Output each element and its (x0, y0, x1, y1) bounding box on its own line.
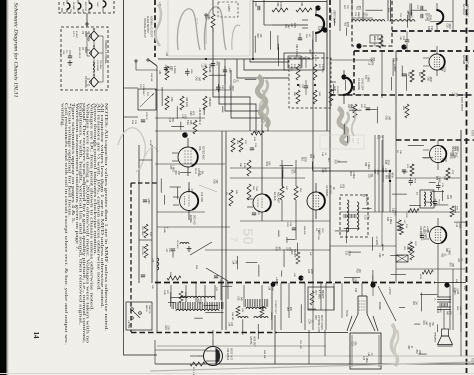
svg-text:R28 36K: R28 36K (208, 97, 211, 107)
clutter zone left mid (177, 187, 179, 199)
wire top center y1 (253, 1, 327, 3)
wire v x282 (281, 160, 283, 186)
resistor cluster A (231, 138, 235, 152)
resistor R86 (190, 362, 205, 366)
svg-text:R63: R63 (384, 175, 386, 180)
node a (205, 58, 207, 60)
wire h y171 (313, 170, 390, 172)
wire v x396 (395, 51, 397, 140)
resistor R30 1 MEG (165, 66, 169, 80)
resistor R61 vert lin (379, 36, 383, 48)
svg-text:TENT: TENT (471, 358, 474, 365)
svg-text:10K: 10K (259, 33, 261, 38)
svg-text:C18: C18 (317, 26, 319, 31)
svg-text:R34: R34 (265, 161, 267, 166)
noise box small (370, 35, 382, 43)
dashed boundary lower left (131, 182, 157, 184)
svg-text:C48 180: C48 180 (231, 312, 233, 321)
svg-text:L37: L37 (151, 258, 154, 263)
page bottom shade (150, 362, 474, 371)
wire rail x123 (123, 0, 125, 332)
svg-text:10K: 10K (354, 278, 356, 283)
svg-text:2200: 2200 (293, 23, 295, 29)
svg-text:47K: 47K (370, 61, 372, 66)
svg-text:R75: R75 (435, 176, 437, 181)
svg-text:winding.: winding. (60, 103, 64, 127)
clutter zone mid top extra (245, 78, 257, 80)
svg-text:68K: 68K (289, 307, 291, 312)
dashed box +135V (218, 2, 238, 17)
svg-text:KEYED AGC: KEYED AGC (202, 146, 205, 160)
if can box L5 (284, 53, 324, 70)
svg-text:R26: R26 (208, 68, 211, 73)
svg-text:+250: +250 (147, 198, 150, 204)
hv diagonal lead (378, 286, 396, 321)
svg-text:C55: C55 (237, 296, 239, 301)
svg-text:10K: 10K (358, 269, 360, 274)
tube V7A agc amp (253, 194, 271, 212)
ghost waveform box (320, 135, 364, 149)
height box dashed (352, 0, 392, 46)
resistor R44 (353, 104, 357, 118)
waveform marker 10 (298, 275, 303, 280)
svg-text:47K: 47K (358, 6, 360, 11)
T8 core hatch (243, 299, 245, 307)
svg-text:.047: .047 (387, 116, 389, 121)
ground L19 (188, 246, 190, 249)
svg-text:.005: .005 (312, 154, 314, 159)
svg-text:470K: 470K (405, 213, 407, 219)
cap C30 180 (366, 107, 370, 109)
resistor R42 (313, 90, 317, 104)
right dashed boundary (466, 0, 468, 375)
wire h y246r (330, 245, 396, 247)
svg-text:C42: C42 (385, 116, 387, 121)
svg-text:C18: C18 (381, 168, 383, 173)
bus wire 6 (244, 59, 289, 70)
tube V5A vert osc (436, 10, 443, 24)
wire v x461 (460, 130, 462, 332)
tube V4A keyed agc (178, 147, 198, 167)
svg-text:3.9K: 3.9K (190, 188, 192, 193)
svg-text:PIX IF: PIX IF (194, 168, 196, 175)
waveform marker 9 (341, 74, 346, 79)
left col stubs (124, 87, 139, 89)
svg-text:Coil resistances read with coi: Coil resistances read with coil in circu… (64, 103, 68, 345)
svg-text:5%: 5% (225, 192, 227, 195)
svg-text:220K: 220K (231, 85, 233, 91)
svg-text:LTD: LTD (139, 84, 141, 88)
svg-text:C19 1000: C19 1000 (200, 192, 202, 203)
svg-text:SWITCH: SWITCH (148, 305, 150, 314)
vert panel dashed top (392, 30, 474, 32)
svg-text:2200: 2200 (286, 222, 288, 228)
clutter zone pre bus (281, 271, 283, 277)
svg-text:.047: .047 (425, 321, 427, 326)
svg-text:R34: R34 (453, 146, 455, 151)
if panel wires (86, 33, 88, 56)
svg-text:VIDEO I F PANEL: VIDEO I F PANEL (104, 40, 108, 64)
wire v x396 lower (395, 140, 397, 283)
resistor R54 1 MEG (296, 8, 312, 12)
svg-text:L35: L35 (158, 70, 161, 75)
svg-text:C18: C18 (198, 171, 200, 176)
wire h y227 (157, 226, 230, 228)
svg-text:1 MEG: 1 MEG (351, 105, 353, 112)
audio transformer T5 (437, 296, 451, 298)
wire h y118 (155, 117, 205, 119)
svg-text:220K: 220K (428, 15, 430, 21)
resistor R46 (405, 104, 409, 118)
svg-text:R49 47K: R49 47K (303, 226, 305, 235)
diag faint (199, 185, 217, 192)
tuner tube V101 rf amp (67, 3, 70, 9)
svg-text:NORMAL–CUTOFF: NORMAL–CUTOFF (150, 16, 153, 38)
svg-text:68K: 68K (448, 311, 450, 316)
clutter zone below bus (205, 312, 223, 314)
svg-text:R34: R34 (428, 322, 430, 327)
wire h y90 (155, 89, 230, 91)
resistor on wire y133 (251, 131, 264, 135)
resistor R82 (167, 276, 181, 280)
wire h y25 (272, 24, 308, 26)
svg-text:5%: 5% (395, 58, 397, 61)
svg-text:R16A: R16A (163, 227, 166, 233)
triple verticals (374, 135, 376, 212)
svg-text:.047: .047 (197, 76, 199, 81)
wire h y168 (230, 167, 330, 169)
svg-text:R75: R75 (349, 105, 351, 110)
svg-text:1 MEG: 1 MEG (389, 217, 391, 224)
svg-text:5%: 5% (366, 215, 368, 218)
svg-text:3.9K: 3.9K (270, 286, 272, 291)
svg-text:R88 10K: R88 10K (263, 350, 265, 359)
svg-text:C29: C29 (254, 2, 257, 7)
svg-text:1 MEG: 1 MEG (367, 75, 369, 82)
svg-text:R12 8.2K: R12 8.2K (141, 246, 143, 256)
left res cluster (144, 224, 148, 238)
svg-text:3RD VID: 3RD VID (193, 215, 196, 225)
svg-text:1 MEG: 1 MEG (173, 66, 176, 74)
ghost curves left (118, 128, 145, 172)
svg-text:470K: 470K (279, 2, 282, 8)
svg-text:64K: 64K (204, 15, 207, 20)
switch S2 (135, 60, 137, 62)
tuner tube V103 osc (89, 3, 92, 9)
svg-text:68K: 68K (354, 342, 356, 347)
svg-text:VR8: VR8 (314, 315, 316, 320)
svg-text:1 MEG: 1 MEG (352, 172, 354, 179)
svg-text:TEST POINT: TEST POINT (460, 97, 463, 112)
node box2 (314, 84, 316, 86)
svg-text:TEL-BLK: TEL-BLK (99, 60, 101, 69)
svg-text:2ND VID IF: 2ND VID IF (78, 47, 80, 59)
svg-text:R10 390K: R10 390K (141, 226, 143, 236)
svg-text:R63: R63 (309, 154, 311, 159)
svg-text:9A-49815-5: 9A-49815-5 (365, 194, 368, 206)
svg-text:.047: .047 (287, 24, 289, 29)
svg-text:R47: R47 (446, 311, 448, 316)
svg-text:R51 2.2 MEG: R51 2.2 MEG (295, 44, 298, 59)
svg-text:R47: R47 (440, 67, 442, 72)
svg-text:1 MEG: 1 MEG (394, 208, 396, 215)
tube V8B snd disc (430, 146, 447, 163)
wire h y221 (240, 220, 330, 222)
volume R80 (410, 246, 414, 260)
hv dashed box (340, 195, 368, 237)
svg-text:45.75: 45.75 (195, 18, 199, 25)
clutter zone mid low (372, 270, 374, 287)
tuner panel dashed box (59, 0, 114, 13)
svg-text:R52: R52 (343, 22, 345, 27)
svg-text:+4 140V: +4 140V (375, 236, 378, 245)
bottom rail y356 (225, 355, 474, 357)
clutter zone right top (334, 19, 336, 26)
svg-text:R47: R47 (196, 298, 198, 303)
b+ dashed bus (155, 282, 435, 284)
svg-text:470K: 470K (199, 298, 201, 304)
svg-text:C24: C24 (308, 319, 310, 324)
svg-text:5%: 5% (452, 155, 454, 158)
svg-text:C42: C42 (194, 76, 196, 81)
svg-text:2200: 2200 (310, 269, 312, 275)
svg-text:C24: C24 (228, 85, 230, 90)
wire h y350 (155, 349, 205, 351)
svg-text:1/2 6U8: 1/2 6U8 (462, 55, 466, 65)
svg-text:220K: 220K (458, 223, 460, 229)
svg-text:+250V: +250V (171, 250, 175, 258)
svg-text:R63: R63 (349, 172, 351, 177)
svg-text:R47: R47 (407, 345, 409, 350)
svg-text:VID OUT: VID OUT (329, 185, 331, 195)
svg-text:MIX OSC: MIX OSC (84, 2, 86, 12)
svg-text:R52: R52 (355, 269, 357, 274)
svg-text:10K: 10K (415, 301, 417, 306)
wire v x275 bottom (274, 315, 276, 364)
svg-text:C24: C24 (441, 158, 443, 163)
svg-text:10K: 10K (384, 168, 386, 173)
cap C47 (214, 275, 218, 277)
tube V3 3rd vid if (90, 77, 99, 87)
svg-text:+: + (166, 227, 170, 229)
svg-text:470K: 470K (419, 274, 421, 280)
svg-text:R53: R53 (276, 2, 279, 7)
svg-text:STRONG–SETUP: STRONG–SETUP (143, 18, 146, 38)
crt area wires (333, 283, 335, 310)
svg-text:C31: C31 (233, 79, 235, 84)
svg-text:470K: 470K (346, 22, 348, 28)
spine edge shade (7, 0, 9, 375)
svg-text:C42: C42 (212, 179, 214, 184)
tube V11 aud out (430, 227, 447, 244)
svg-text:VOLUME: VOLUME (459, 306, 461, 316)
svg-text:1/2 6U8: 1/2 6U8 (273, 192, 276, 201)
svg-text:C18: C18 (345, 251, 347, 256)
coil L37 (157, 258, 159, 261)
svg-text:R52: R52 (208, 64, 210, 69)
svg-text:R54: R54 (300, 2, 303, 7)
smudge handwriting center (257, 76, 268, 127)
svg-text:2200: 2200 (448, 23, 450, 29)
wire h y178 (230, 177, 305, 179)
wire bend bottom left (124, 332, 158, 355)
capacitor C29 (257, 6, 259, 10)
vert panel dashed left (329, 0, 331, 31)
bus wire 4 (231, 70, 268, 131)
svg-text:C42: C42 (189, 111, 191, 116)
svg-text:C31: C31 (388, 173, 390, 178)
svg-text:BEST FOCUS: BEST FOCUS (320, 315, 322, 330)
wire h y98 stub (460, 94, 466, 96)
svg-text:VERT LIN: VERT LIN (373, 36, 375, 46)
node tuner output (86, 23, 88, 25)
resistor R33 47K (165, 96, 169, 110)
svg-text:L33: L33 (165, 52, 168, 57)
resistor R26 10K (203, 66, 207, 80)
smudge right (338, 108, 347, 144)
T7 core hatch (171, 302, 173, 309)
svg-text:R63: R63 (301, 157, 303, 162)
quad coil T4 (420, 190, 434, 208)
svg-text:.047: .047 (454, 92, 456, 97)
svg-text:R47: R47 (392, 58, 394, 63)
svg-text:.0047: .0047 (357, 12, 359, 18)
svg-text:C24: C24 (436, 309, 438, 314)
svg-text:2200: 2200 (303, 157, 305, 163)
svg-text:R16 56K: R16 56K (150, 73, 152, 82)
svg-text:V3 6AW8A: V3 6AW8A (84, 76, 87, 88)
svg-text:C18: C18 (351, 342, 353, 347)
video if panel dashed box (61, 27, 108, 90)
crt grid dots (359, 300, 366, 302)
svg-text:C52 .047: C52 .047 (299, 340, 301, 350)
chassis dashed bottom (131, 332, 277, 334)
vr7 brightness box (308, 287, 334, 310)
wire h y212 (157, 211, 205, 213)
wire rail x139 (138, 145, 140, 283)
bus wire 1 (213, 59, 250, 131)
tube V8A sound if (429, 54, 445, 70)
svg-text:RF AMP: RF AMP (72, 2, 75, 11)
clutter zone sound strip (401, 66, 403, 77)
tube V6 video out (180, 192, 199, 211)
tuner tube V102 mixer (78, 3, 81, 9)
top right rails (362, 0, 364, 21)
svg-text:1 MEG: 1 MEG (311, 49, 313, 56)
noise inv dashed box (289, 58, 331, 108)
svg-text:+280V: +280V (393, 64, 397, 72)
wire h y330 right (277, 332, 348, 334)
svg-text:+400V: +400V (275, 277, 279, 286)
svg-text:R34: R34 (369, 57, 371, 62)
svg-text:C18: C18 (168, 118, 170, 123)
audio corner wires (437, 252, 439, 297)
svg-text:OCX: OCX (321, 228, 323, 233)
bus wire 7 (250, 59, 289, 62)
svg-text:HOR OUT: HOR OUT (253, 336, 255, 347)
svg-text:YOKE: YOKE (345, 310, 347, 317)
svg-text:1 MEG: 1 MEG (448, 248, 450, 255)
svg-text:C55: C55 (169, 165, 171, 170)
svg-text:WIDTH: WIDTH (145, 305, 147, 313)
svg-text:C24: C24 (446, 195, 448, 200)
wire v x264 (263, 0, 265, 25)
svg-text:R21: R21 (422, 321, 424, 326)
svg-text:750K: 750K (255, 186, 257, 192)
svg-text:54K: 54K (239, 163, 241, 167)
svg-text:6BZ6: 6BZ6 (84, 31, 87, 37)
wire h y131 (155, 130, 330, 132)
svg-text:1/2 6AW8A: 1/2 6AW8A (325, 185, 328, 197)
svg-text:4.5MC: 4.5MC (314, 55, 316, 62)
svg-text:BRIGHT: BRIGHT (321, 290, 323, 299)
clutter zone bottom right (420, 293, 422, 312)
diagonal wire (206, 268, 228, 281)
wire h y250 (205, 249, 330, 251)
svg-text:137 V: 137 V (72, 31, 74, 37)
svg-text:VERT OUT: VERT OUT (230, 348, 233, 361)
svg-text:6BZ6: 6BZ6 (84, 47, 87, 53)
svg-text:V12: V12 (354, 288, 357, 293)
contrast box (138, 89, 156, 110)
flyback T6 coils (347, 200, 349, 204)
tube V1 1st vid if (90, 31, 99, 41)
extra bus drop wires (195, 283, 197, 302)
wire h y178r (396, 177, 460, 179)
svg-text:C42: C42 (427, 26, 429, 31)
svg-text:5.6K: 5.6K (186, 120, 189, 125)
wire rail x152 (151, 145, 153, 283)
waveform marker 7 (356, 43, 361, 48)
height control coil (352, 20, 356, 22)
svg-text:1 MEG: 1 MEG (172, 165, 174, 172)
wire h y59 bus (158, 58, 313, 60)
waveform marker 3 (182, 132, 188, 138)
svg-text:68K: 68K (268, 161, 270, 166)
width switch box (126, 302, 152, 330)
svg-text:7: 7 (227, 236, 239, 242)
svg-text:220K: 220K (443, 67, 445, 73)
resistor R38b (296, 90, 300, 104)
agc panel dashed bottom (330, 94, 474, 96)
waveform marker 6 (322, 27, 327, 32)
resistor R53 470K (272, 8, 288, 12)
wire h y212r (340, 211, 460, 213)
wire rail x157 lower (156, 66, 158, 332)
node waveform tap (205, 14, 207, 16)
svg-text:50: 50 (239, 228, 256, 245)
svg-text:R52: R52 (362, 12, 364, 17)
svg-text:L15 3RD VID IF: L15 3RD VID IF (198, 108, 201, 125)
ground C2 (69, 60, 71, 63)
book spine black bar (0, 0, 7, 375)
cap C26 (405, 39, 409, 41)
smudge crt (391, 324, 397, 366)
wire v x382 lower (381, 140, 383, 246)
svg-text:BRIGHT: BRIGHT (293, 249, 295, 258)
tube V4B sync sep (343, 77, 352, 95)
svg-text:R52: R52 (441, 253, 443, 258)
svg-text:5%: 5% (203, 64, 205, 67)
svg-text:3.9K: 3.9K (184, 114, 186, 119)
choke X1 (93, 62, 94, 65)
svg-text:10K: 10K (444, 158, 446, 163)
svg-text:C24: C24 (378, 253, 380, 258)
svg-text:X1 CHOKE: X1 CHOKE (96, 60, 98, 72)
svg-text:R63: R63 (453, 290, 455, 295)
svg-text:C18: C18 (362, 356, 364, 361)
svg-text:L17A: L17A (149, 140, 152, 146)
